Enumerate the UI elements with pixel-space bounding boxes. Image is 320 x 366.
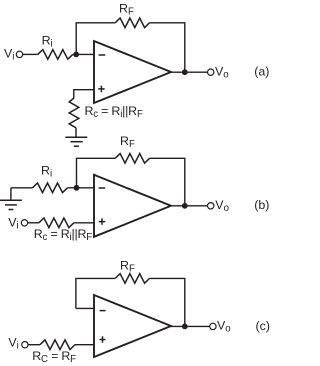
svg-text:RC = RF: RC = RF [32,349,76,365]
svg-text:(c): (c) [256,319,270,333]
svg-text:(a): (a) [254,65,269,79]
svg-text:(b): (b) [254,198,269,212]
